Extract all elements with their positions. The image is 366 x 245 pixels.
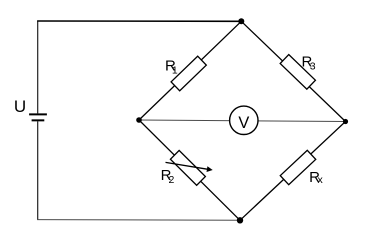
svg-text:1: 1 bbox=[172, 64, 178, 76]
svg-text:3: 3 bbox=[310, 61, 316, 73]
svg-text:2: 2 bbox=[169, 174, 175, 186]
svg-text:U: U bbox=[14, 97, 26, 116]
svg-text:V: V bbox=[238, 114, 249, 132]
svg-text:x: x bbox=[318, 174, 324, 186]
